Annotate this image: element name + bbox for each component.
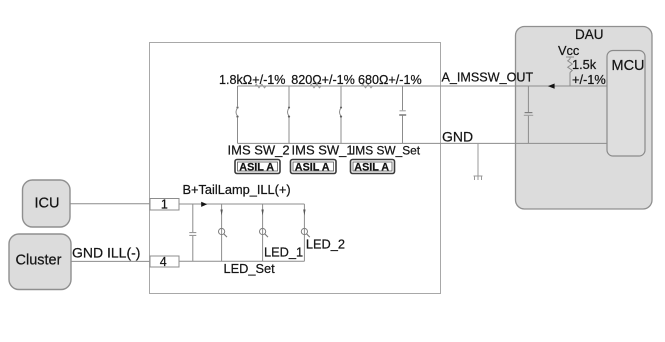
- svg-text:LED_Set: LED_Set: [224, 261, 276, 276]
- svg-text:DAU: DAU: [575, 27, 604, 42]
- pin 1: [150, 198, 179, 212]
- svg-text:+/-1%: +/-1%: [572, 72, 606, 87]
- Cluster box: [9, 234, 71, 290]
- svg-text:Cluster: Cluster: [16, 253, 62, 269]
- svg-text:4: 4: [160, 255, 167, 269]
- LED LED_Set: [219, 204, 228, 261]
- capacitor C3: [524, 86, 533, 143]
- svg-text:ASIL A: ASIL A: [239, 162, 274, 174]
- svg-text:ASIL A: ASIL A: [295, 162, 330, 174]
- DAU box: [516, 27, 653, 210]
- svg-text:IMS SW_1: IMS SW_1: [292, 143, 354, 158]
- svg-text:Vcc: Vcc: [558, 43, 580, 58]
- MCU U1: [607, 51, 645, 157]
- arrow on A_IMSSW_OUT: [548, 84, 555, 89]
- svg-text:IMS SW_Set: IMS SW_Set: [352, 144, 421, 158]
- svg-text:GND ILL(-): GND ILL(-): [72, 245, 140, 261]
- ASIL A tag for SW_2: [235, 160, 280, 174]
- svg-text:680Ω+/-1%: 680Ω+/-1%: [358, 73, 422, 87]
- LED LED_2: [301, 204, 310, 261]
- wire B+TailLamp_ILL(+): [179, 203, 304, 205]
- ASIL A tag for SW_Set: [351, 160, 395, 174]
- ground symbol: [474, 143, 483, 180]
- resistor R4 1.5k: [568, 57, 606, 87]
- wire GND: [238, 142, 608, 144]
- svg-text:1.8kΩ+/-1%: 1.8kΩ+/-1%: [219, 73, 285, 87]
- svg-text:A_IMSSW_OUT: A_IMSSW_OUT: [442, 70, 534, 84]
- switch IMS SW_2: [236, 86, 239, 143]
- svg-text:LED_2: LED_2: [306, 237, 345, 252]
- wire LED return to pin 4: [179, 260, 304, 262]
- svg-text:IMS SW_2: IMS SW_2: [228, 143, 290, 158]
- svg-text:GND: GND: [442, 129, 473, 145]
- switch IMS SW_1: [288, 86, 291, 143]
- wire ICU to pin 1: [70, 203, 150, 205]
- resistor R3 680Ω: [358, 73, 422, 88]
- wire Cluster to pin 4: [71, 260, 150, 262]
- pin 4: [150, 255, 179, 269]
- svg-text:820Ω+/-1%: 820Ω+/-1%: [291, 73, 355, 87]
- capacitor C2: [399, 86, 406, 143]
- svg-text:B+TailLamp_ILL(+): B+TailLamp_ILL(+): [183, 182, 291, 197]
- switch IMS SW_Set: [340, 86, 343, 143]
- svg-text:1: 1: [161, 198, 168, 212]
- ICU box: [23, 180, 71, 227]
- capacitor C1: [189, 204, 196, 261]
- resistor R2 820Ω: [291, 73, 355, 88]
- svg-text:1.5k: 1.5k: [572, 57, 597, 72]
- resistor R1 1.8kΩ: [219, 73, 285, 88]
- svg-text:LED_1: LED_1: [264, 245, 303, 260]
- wire A_IMSSW_OUT: [238, 85, 608, 87]
- arrow on B+TailLamp_ILL(+): [201, 202, 207, 207]
- Vcc terminal: [558, 43, 580, 58]
- LED LED_1: [260, 204, 269, 261]
- ASIL A tag for SW_1: [291, 160, 337, 174]
- svg-text:MCU: MCU: [612, 58, 645, 74]
- module boundary rectangle: [150, 43, 441, 294]
- svg-text:ASIL A: ASIL A: [354, 162, 389, 174]
- svg-text:ICU: ICU: [35, 196, 60, 212]
